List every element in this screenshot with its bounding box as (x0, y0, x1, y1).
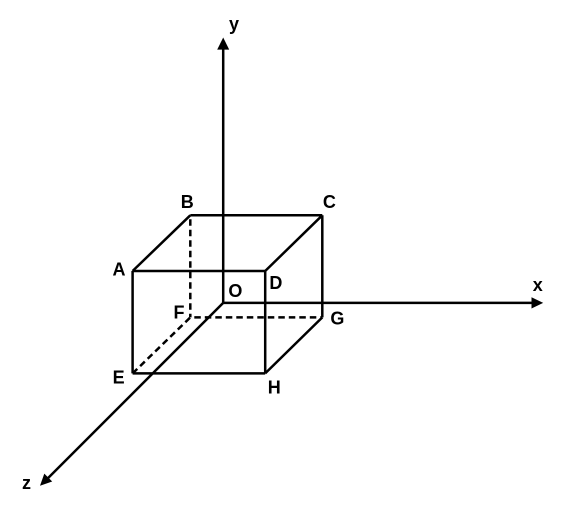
svg-text:O: O (228, 281, 242, 301)
svg-text:A: A (113, 260, 126, 280)
svg-text:z: z (22, 473, 31, 493)
svg-text:B: B (181, 192, 194, 212)
svg-text:H: H (268, 377, 281, 397)
svg-text:x: x (533, 275, 543, 295)
svg-text:G: G (330, 308, 344, 328)
svg-text:E: E (113, 367, 125, 387)
svg-text:y: y (229, 14, 239, 34)
svg-text:F: F (174, 302, 185, 322)
svg-text:D: D (269, 273, 282, 293)
svg-text:C: C (323, 192, 336, 212)
